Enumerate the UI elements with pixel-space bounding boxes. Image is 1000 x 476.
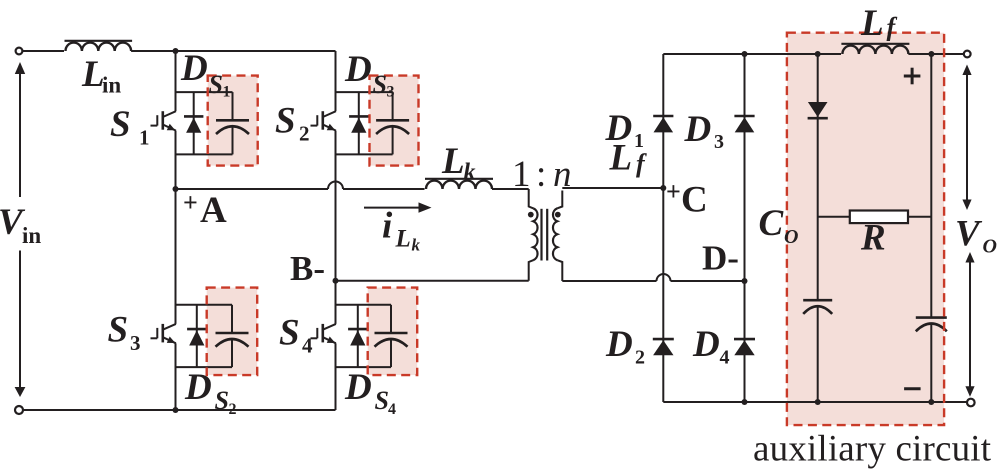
- svg-text:4: 4: [302, 334, 313, 358]
- svg-text:L: L: [441, 141, 465, 182]
- svg-text:1: 1: [512, 154, 531, 195]
- svg-text:auxiliary circuit: auxiliary circuit: [753, 429, 992, 470]
- svg-text:in: in: [22, 223, 41, 248]
- svg-text:D: D: [180, 48, 208, 89]
- svg-text:O: O: [983, 236, 997, 258]
- svg-text:1: 1: [223, 84, 231, 101]
- svg-text:S: S: [279, 313, 300, 354]
- svg-text:3: 3: [130, 331, 141, 355]
- svg-text:L: L: [395, 226, 411, 253]
- svg-text:S: S: [215, 386, 229, 415]
- svg-text:n: n: [553, 154, 572, 195]
- svg-text:2: 2: [229, 401, 237, 418]
- svg-text::: :: [536, 154, 546, 195]
- svg-text:k: k: [464, 160, 476, 186]
- svg-text:i: i: [382, 206, 393, 247]
- svg-text:D: D: [184, 367, 212, 408]
- svg-text:D: D: [344, 367, 372, 408]
- svg-text:+: +: [666, 177, 681, 206]
- svg-text:S: S: [275, 101, 296, 142]
- svg-text:2: 2: [299, 122, 310, 146]
- svg-text:S: S: [110, 104, 131, 145]
- svg-text:B-: B-: [290, 249, 325, 288]
- svg-text:S: S: [108, 310, 129, 351]
- svg-text:3: 3: [387, 84, 395, 101]
- svg-text:C: C: [759, 203, 785, 244]
- svg-text:R: R: [860, 218, 886, 259]
- svg-text:C: C: [681, 180, 708, 221]
- svg-text:L: L: [609, 138, 633, 179]
- svg-text:V: V: [955, 214, 983, 255]
- svg-text:O: O: [784, 226, 798, 248]
- svg-text:D: D: [605, 324, 633, 365]
- svg-text:in: in: [102, 73, 121, 98]
- svg-text:+: +: [183, 188, 198, 217]
- svg-text:1: 1: [139, 126, 150, 150]
- svg-text:D: D: [344, 49, 372, 90]
- svg-text:A: A: [200, 190, 227, 231]
- svg-text:4: 4: [388, 401, 396, 418]
- svg-text:4: 4: [720, 347, 730, 369]
- svg-text:3: 3: [714, 131, 724, 153]
- svg-text:L: L: [860, 3, 884, 44]
- svg-text:S: S: [209, 70, 223, 99]
- svg-text:2: 2: [635, 347, 645, 369]
- svg-text:D-: D-: [702, 239, 739, 278]
- svg-text:D: D: [684, 109, 712, 150]
- svg-text:D: D: [692, 324, 720, 365]
- svg-text:S: S: [373, 70, 387, 99]
- svg-text:S: S: [375, 386, 389, 415]
- svg-text:k: k: [412, 236, 421, 255]
